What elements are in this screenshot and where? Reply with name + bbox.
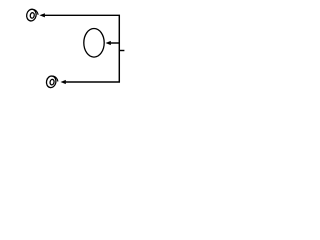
arrowhead into top spiral node bbox=[39, 13, 45, 17]
arrowhead into ellipse node bbox=[106, 41, 111, 45]
arrowhead into bottom spiral node bbox=[61, 80, 66, 84]
spiral node bottom (roll symbol) bbox=[45, 75, 58, 89]
ellipse node bbox=[84, 29, 104, 58]
wire: trunk with top and bottom branch lines bbox=[45, 15, 120, 82]
wire: input stub on trunk right side bbox=[119, 50, 124, 52]
spiral node top (roll symbol) bbox=[26, 8, 39, 22]
wire: middle branch to ellipse bbox=[110, 42, 119, 44]
